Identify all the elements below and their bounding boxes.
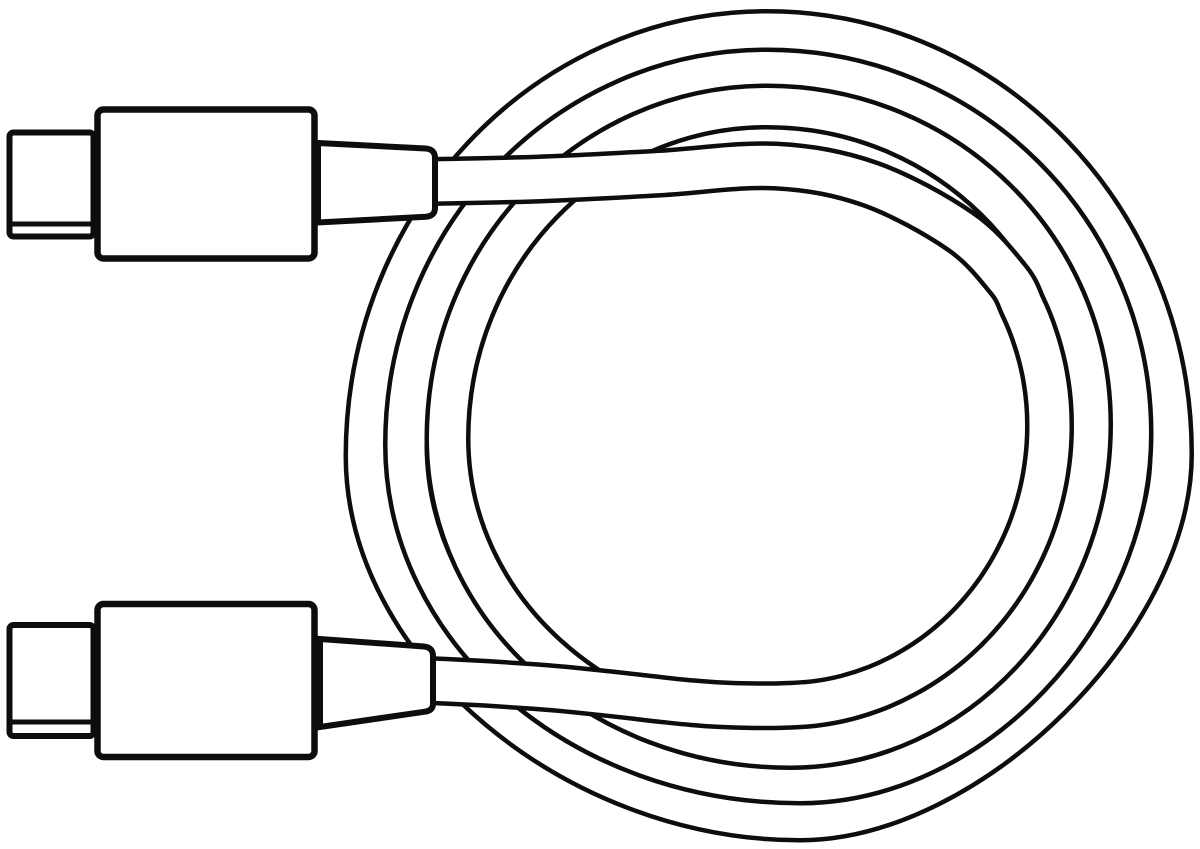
coil loop 3 [448, 107, 1091, 748]
connector bottom: connector body [98, 604, 315, 757]
connector top: strain-relief boot [318, 143, 435, 223]
connector top: plug slot line [10, 222, 94, 227]
cable: top lead + innermost turn + bottom lead [428, 166, 1049, 706]
connector top: USB-C plug tip [10, 133, 94, 237]
connector top: connector body [98, 110, 315, 259]
connector bottom: strain-relief boot [320, 639, 433, 727]
coil loop 2 [406, 71, 1131, 783]
connector bottom: plug slot line [10, 720, 94, 725]
coil loop 1 (outermost turn) [367, 32, 1172, 820]
connector bottom: USB-C plug tip [10, 625, 94, 736]
